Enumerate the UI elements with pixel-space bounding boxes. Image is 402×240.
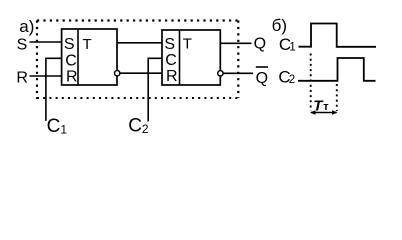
dotted border left (36, 21, 38, 100)
svg-text:R: R (16, 69, 28, 86)
wire Q-bar output (223, 72, 253, 74)
waveform C1 (299, 24, 377, 47)
wire U1 to U2 S (117, 42, 162, 44)
svg-text:T: T (183, 35, 192, 52)
dotted border top (37, 19, 238, 21)
wire C1 stub (46, 58, 62, 121)
flip-flop U2 box (162, 30, 220, 85)
dimension arrow (311, 112, 337, 114)
dotted border bottom (37, 97, 238, 99)
wire C2 stub (148, 58, 162, 121)
svg-text:C: C (65, 52, 77, 69)
dotted marker left (310, 54, 312, 112)
svg-text:т: т (323, 101, 329, 113)
wire S input (30, 41, 62, 43)
svg-text:Q: Q (256, 70, 268, 87)
svg-text:C: C (165, 52, 177, 69)
flip-flop U1 box (62, 29, 117, 85)
U2 divider (179, 30, 181, 85)
inverter bubble on U2 output (218, 71, 223, 76)
svg-text:а): а) (19, 17, 34, 36)
wire Q output (220, 42, 251, 44)
dotted border right (237, 21, 239, 99)
wire R input (30, 75, 62, 77)
svg-text:S: S (64, 36, 75, 53)
svg-text:Q: Q (254, 35, 266, 52)
svg-text:S: S (17, 36, 28, 53)
inverter bubble on U1 output (115, 71, 120, 76)
U1 divider (77, 29, 79, 85)
svg-text:S: S (164, 36, 175, 53)
dotted marker right (336, 84, 338, 111)
waveform C2 (298, 58, 376, 81)
overline of Q-bar (256, 66, 268, 68)
svg-text:R: R (166, 68, 178, 85)
wire U1 inverted output to U2 R (120, 72, 162, 74)
svg-text:R: R (66, 69, 78, 86)
svg-text:T: T (83, 36, 92, 53)
svg-text:б): б) (272, 16, 287, 35)
